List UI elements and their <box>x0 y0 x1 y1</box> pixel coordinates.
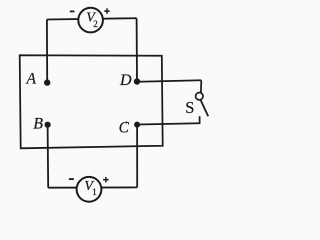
plus label of V1 <box>103 177 109 183</box>
voltmeter V2 <box>78 8 103 33</box>
wire top horizontal (V2 branch) <box>47 18 137 19</box>
svg-text:2: 2 <box>93 19 98 29</box>
node C <box>134 122 140 128</box>
wire node C down <box>136 126 138 187</box>
wire bottom horizontal (V1 branch) <box>48 186 137 188</box>
svg-text:C: C <box>119 120 130 137</box>
svg-text:B: B <box>33 116 43 133</box>
wire switch drop <box>200 80 202 93</box>
wire left vertical down to node A <box>46 20 48 82</box>
wire switch bottom stub <box>199 116 201 124</box>
wire node B down <box>47 126 50 188</box>
apostrophe tick after label C <box>125 122 127 124</box>
svg-text:1: 1 <box>92 187 97 197</box>
minus label of V2 <box>70 10 75 12</box>
plus label of V2 <box>104 8 110 14</box>
switch S pivot contact circle <box>196 93 203 100</box>
wire node C to switch bottom contact <box>138 123 200 124</box>
wire right vertical down to node D <box>136 18 138 80</box>
voltmeter V1 <box>77 177 102 202</box>
wire node D to switch <box>138 80 201 81</box>
switch S lever (open) <box>201 100 209 116</box>
node A <box>44 79 50 85</box>
minus label of V1 <box>69 178 74 180</box>
node D <box>134 78 140 84</box>
node B <box>45 122 51 128</box>
svg-text:S: S <box>185 98 194 117</box>
black box outline <box>20 55 163 148</box>
svg-text:A: A <box>26 71 37 88</box>
svg-text:D: D <box>119 72 132 89</box>
